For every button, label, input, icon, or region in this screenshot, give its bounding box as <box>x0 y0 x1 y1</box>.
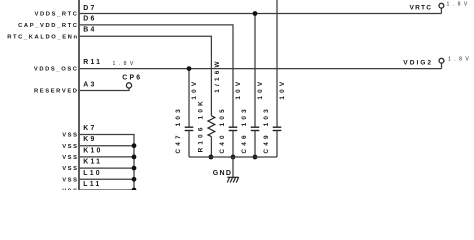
IC U? right edge <box>78 0 80 190</box>
svg-text:CAP_VDD_RTC: CAP_VDD_RTC <box>18 23 78 29</box>
capacitor C40 plates <box>229 126 238 128</box>
svg-text:10V: 10V <box>191 79 198 100</box>
resistor R106 lower lead <box>210 137 212 157</box>
svg-text:VSS: VSS <box>62 177 78 183</box>
svg-text:L10: L10 <box>83 170 101 177</box>
svg-text:K7: K7 <box>83 125 96 132</box>
svg-text:103: 103 <box>263 106 270 126</box>
wire VSS K11 <box>80 167 134 169</box>
svg-text:C40: C40 <box>219 132 226 153</box>
wire VSS K7 <box>80 135 134 191</box>
wire net RTC_KALDO_ENn <box>80 36 212 116</box>
svg-text:10V: 10V <box>257 79 264 100</box>
svg-text:VSS: VSS <box>62 144 78 150</box>
wire net VDDS_OSC / VDIG2 <box>80 68 442 70</box>
svg-text:R106 10K: R106 10K <box>198 98 205 152</box>
svg-text:1.8V: 1.8V <box>447 1 471 7</box>
svg-text:VSS: VSS <box>62 189 78 190</box>
terminal VDIG2 stub <box>441 63 443 69</box>
svg-text:VRTC: VRTC <box>410 4 433 11</box>
junction L10 <box>132 177 137 182</box>
junction R106/rail <box>209 155 214 160</box>
svg-text:D6: D6 <box>83 16 96 23</box>
svg-text:CP6: CP6 <box>122 75 142 82</box>
svg-text:VDDS_RTC: VDDS_RTC <box>35 12 79 18</box>
capacitor C47 branch wire <box>188 69 190 127</box>
svg-text:103: 103 <box>241 106 248 126</box>
terminal VRTC circle <box>439 3 444 8</box>
capacitor C49 branch wire (from off-sheet top) <box>276 0 278 127</box>
ground stem wire <box>232 157 234 177</box>
svg-text:R11: R11 <box>83 59 102 66</box>
terminal VRTC stub <box>440 8 442 13</box>
svg-text:103: 103 <box>175 106 182 126</box>
capacitor C46 plates <box>251 126 260 128</box>
svg-text:VDIG2: VDIG2 <box>403 59 433 66</box>
svg-text:D7: D7 <box>83 5 96 12</box>
svg-text:1/16W: 1/16W <box>214 58 221 92</box>
wire net CAP_VDD_RTC <box>80 25 233 127</box>
wire VSS K9 <box>80 145 134 147</box>
capacitor C40 lower lead <box>232 131 234 157</box>
svg-text:K11: K11 <box>83 159 102 166</box>
junction C47/VDDS_OSC <box>187 66 192 71</box>
svg-text:C49: C49 <box>263 132 270 153</box>
capacitor C49 plates <box>273 126 282 128</box>
capacitor C46 branch wire <box>254 14 256 127</box>
junction K11 <box>132 166 137 171</box>
svg-text:1.8V: 1.8V <box>113 61 137 67</box>
capacitor C46 lower lead <box>254 131 256 157</box>
svg-text:A3: A3 <box>83 82 96 89</box>
svg-text:K10: K10 <box>83 147 102 154</box>
wire VSS L10 <box>80 178 134 180</box>
capacitor C49 lower lead <box>276 131 278 157</box>
junction C46/VDDS_RTC <box>253 11 258 16</box>
junction K10 <box>132 155 137 160</box>
svg-text:GND: GND <box>213 170 232 177</box>
wire net RESERVED <box>80 88 129 90</box>
junction C40/rail/GND <box>231 155 236 160</box>
svg-text:1.8V: 1.8V <box>448 56 472 62</box>
wire net VDDS_RTC / VRTC <box>80 13 442 15</box>
svg-text:RTC_KALDO_ENn: RTC_KALDO_ENn <box>7 34 78 40</box>
capacitor C47 lower lead <box>188 131 190 157</box>
svg-text:VSS: VSS <box>62 166 78 172</box>
svg-text:B4: B4 <box>83 26 96 33</box>
svg-text:C47: C47 <box>175 132 182 153</box>
ground rail wire <box>189 156 277 158</box>
svg-text:VSS: VSS <box>62 133 78 139</box>
svg-text:L11: L11 <box>83 181 101 188</box>
ground symbol <box>227 177 239 182</box>
svg-text:C46: C46 <box>241 132 248 153</box>
svg-text:RESERVED: RESERVED <box>34 89 79 95</box>
svg-text:VDDS_OSC: VDDS_OSC <box>34 67 79 73</box>
terminal VDIG2 circle <box>439 58 444 63</box>
junction C46/rail <box>253 155 258 160</box>
svg-text:10V: 10V <box>279 79 286 100</box>
svg-text:10V: 10V <box>235 79 242 100</box>
resistor R106 zigzag <box>208 116 215 137</box>
svg-text:VSS: VSS <box>62 155 78 161</box>
junction K9 <box>132 143 137 148</box>
svg-text:K9: K9 <box>83 136 96 143</box>
wire VSS K10 <box>80 156 134 158</box>
junction L11 <box>132 188 137 193</box>
capacitor C47 plates <box>185 126 194 128</box>
wire VSS L11 (at bottom edge) <box>80 189 134 191</box>
svg-text:105: 105 <box>219 106 226 126</box>
test point CP6 circle <box>126 83 131 88</box>
